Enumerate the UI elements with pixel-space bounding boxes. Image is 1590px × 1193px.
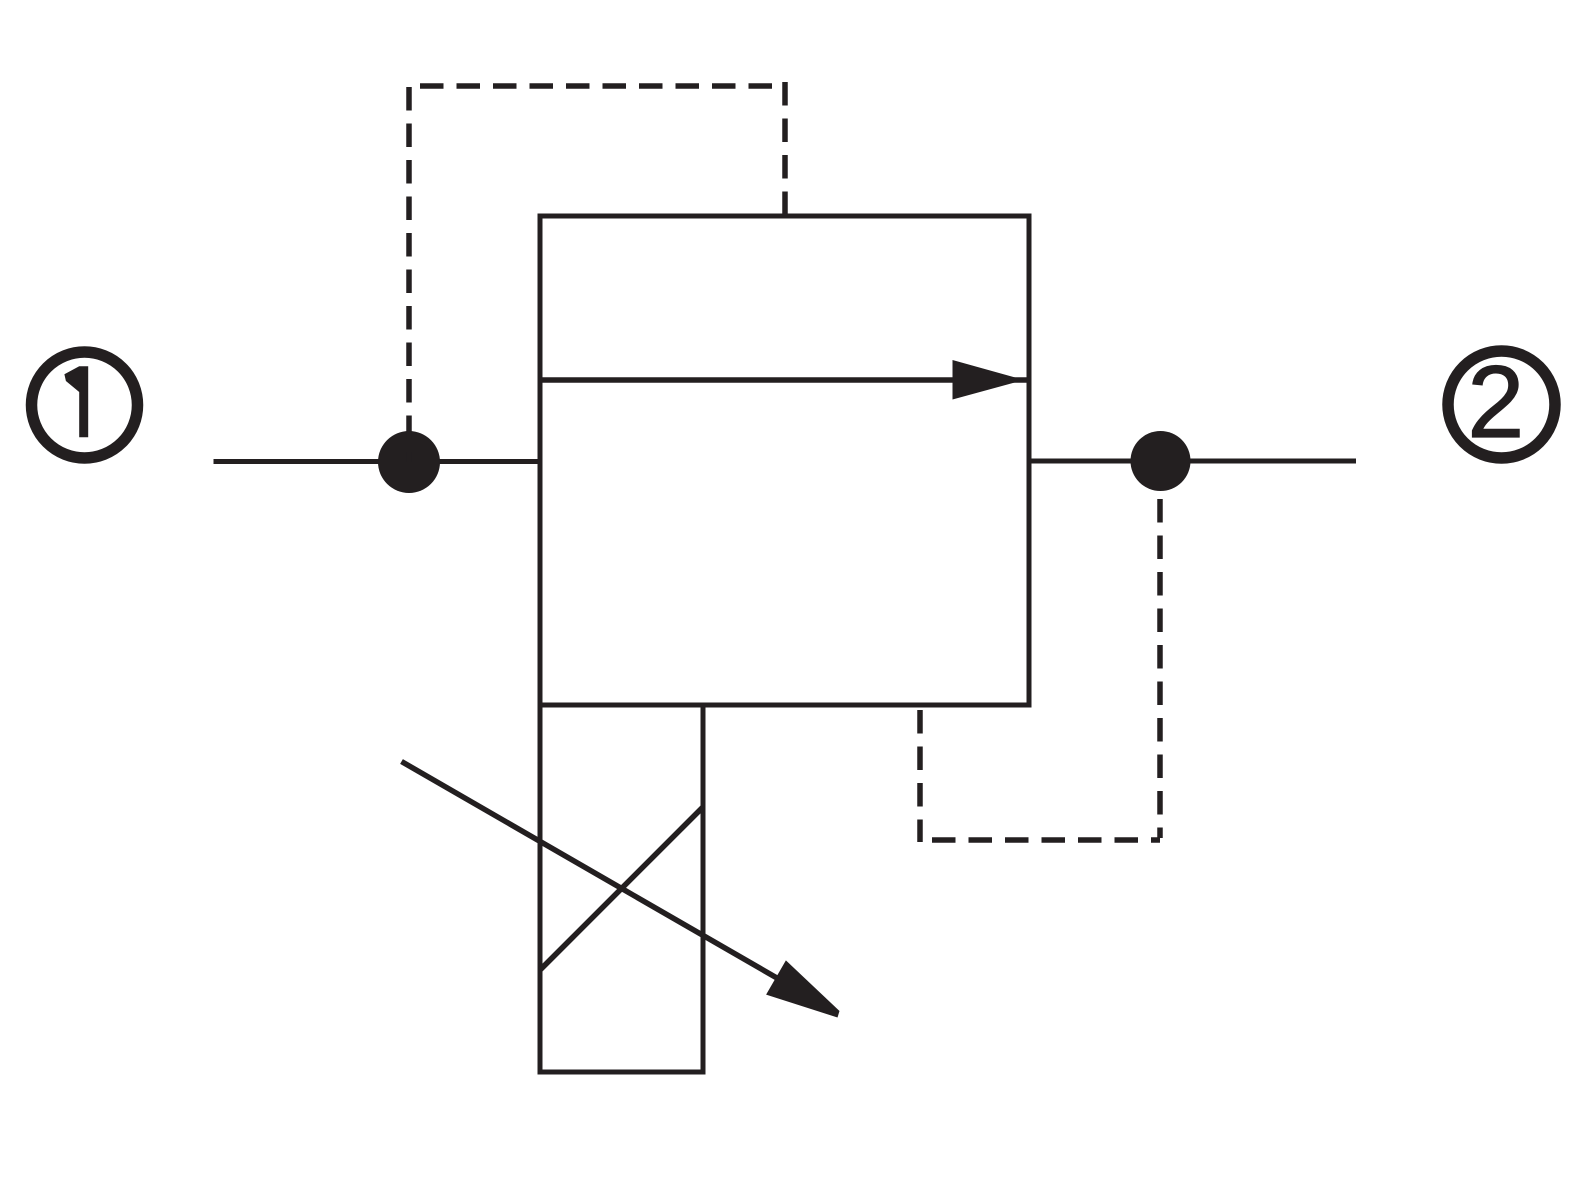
flow path arrow (head): [953, 360, 1025, 400]
cross line (blocked path diagonal): [540, 807, 703, 970]
pilot line: dashed vertical leg down to valve top: [782, 82, 788, 216]
wire: port 2 line: [1029, 459, 1356, 464]
pilot line: dashed vertical leg from node 1 up: [406, 87, 412, 462]
adjustable arrow (shaft): [402, 762, 789, 985]
adjustable arrow (head): [766, 960, 839, 1017]
node: junction dot at port 1: [378, 431, 440, 493]
pilot line: dashed horizontal leg along top: [420, 83, 772, 89]
wire: port 1 line: [214, 459, 541, 464]
flow path arrow (line): [540, 377, 1029, 383]
port 1 label circle: [32, 352, 138, 458]
spring / adjustment cavity rectangle: [540, 705, 703, 1072]
valve body box: [540, 216, 1029, 705]
pilot line: dashed horizontal leg along bottom: [932, 837, 1160, 843]
node: junction dot at port 2: [1131, 431, 1191, 491]
pilot line: dashed vertical leg from valve bottom down: [917, 710, 923, 842]
port 2 label circle: [1448, 351, 1555, 458]
pilot line: dashed vertical leg from node 2 down: [1157, 499, 1163, 838]
